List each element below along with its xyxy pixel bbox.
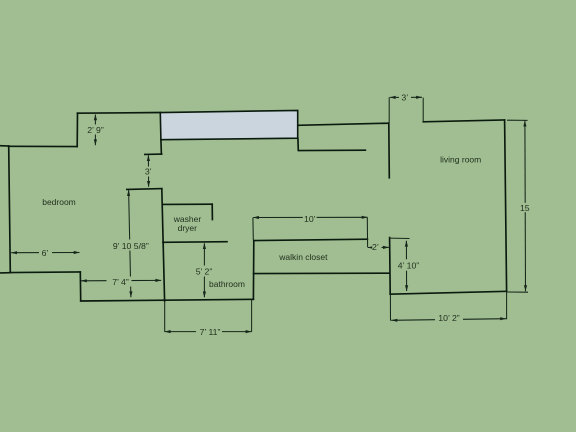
arrows 4'10" — [405, 241, 408, 247]
wall washer south / bath north — [163, 241, 227, 244]
svg-text:6’: 6’ — [42, 248, 49, 258]
dim ext 7'11 left — [164, 301, 166, 332]
arrows 6' — [11, 251, 17, 254]
arrows 15 — [523, 121, 526, 127]
wall walkin south — [254, 272, 390, 274]
wall tick upper (door jamb) — [145, 153, 162, 155]
wall interior x162 (bedroom east / bath west) — [162, 189, 165, 301]
svg-text:9’ 10 5/8”: 9’ 10 5/8” — [113, 241, 149, 251]
dim ext 10' right — [366, 217, 368, 247]
dim line 5'2" — [203, 243, 205, 297]
svg-text:10’: 10’ — [304, 214, 316, 224]
dim ext 15 bottom — [507, 291, 528, 293]
svg-text:bathroom: bathroom — [209, 279, 245, 289]
dim line 2' — [368, 246, 389, 248]
wall living south — [390, 291, 506, 294]
svg-text:4’ 10”: 4’ 10” — [398, 260, 420, 270]
wall stub at left edge (bottom) — [0, 272, 10, 274]
dim ext 10' left — [252, 218, 254, 240]
svg-text:15: 15 — [520, 203, 530, 213]
wall living north — [423, 120, 504, 122]
wall north (bump to blue rect) — [78, 112, 161, 115]
wall bump vertical — [76, 113, 78, 146]
arrows 5'2" — [203, 243, 206, 249]
svg-text:dryer: dryer — [178, 223, 198, 233]
room labels — [42, 154, 481, 289]
wall hall north (y124) — [298, 123, 389, 125]
dim line 6' — [11, 252, 79, 254]
arrows 3' top — [390, 96, 396, 99]
wall walkin west — [252, 241, 254, 300]
svg-text:3’: 3’ — [401, 93, 408, 103]
dim line 4'10" — [405, 241, 407, 291]
dim ext 10'2 left — [389, 295, 391, 321]
svg-text:5’ 2”: 5’ 2” — [196, 266, 213, 276]
svg-text:10’ 2”: 10’ 2” — [438, 313, 460, 323]
arrows 9'10 5/8" — [127, 190, 130, 196]
svg-text:bedroom: bedroom — [42, 197, 76, 207]
wall below blue rect (left) — [160, 140, 163, 155]
dim line 3' left — [147, 155, 149, 187]
wall east lower (x389) — [389, 238, 392, 295]
wall east upper (x389) — [388, 123, 391, 178]
arrows 2' — [368, 246, 374, 249]
dim line 10'2" — [391, 319, 506, 321]
wall bath south — [81, 299, 254, 301]
dim ext 15 top — [507, 119, 528, 121]
arrows 7'4" — [81, 279, 87, 282]
label backgrounds — [39, 93, 531, 337]
wall step vertical — [79, 272, 81, 301]
svg-text:walkin closet: walkin closet — [278, 252, 328, 262]
arrows 3' left — [147, 155, 150, 161]
wall bedroom south — [10, 271, 80, 274]
wall bedroom west — [9, 146, 11, 272]
wall washer north — [163, 203, 213, 205]
dim ext 3'top left — [388, 97, 390, 122]
dim line 7'11" — [165, 331, 252, 333]
svg-text:living room: living room — [440, 154, 481, 164]
wall washer east — [211, 204, 213, 219]
svg-text:3’: 3’ — [145, 167, 152, 177]
arrows 7'11" — [165, 330, 171, 333]
wall stub at left edge (top) — [0, 145, 9, 147]
svg-text:2’: 2’ — [372, 242, 379, 252]
dim ext 3'top right — [422, 98, 424, 122]
wall tick lower (door jamb) — [127, 188, 162, 191]
arrows 10'2" — [391, 319, 397, 322]
arrows 10' — [253, 216, 259, 219]
dim line 9'10 5/8" — [129, 190, 131, 297]
dim line 7'4" — [81, 279, 161, 281]
window / blue rectangle — [160, 110, 297, 139]
dim line 2'9" — [94, 115, 96, 146]
dimension labels — [42, 93, 530, 337]
wall hall south (y150) — [299, 149, 365, 151]
wall walkin north — [254, 239, 368, 240]
dim tick 4'10" top — [390, 237, 410, 239]
wall bedroom north (west part) — [9, 145, 78, 147]
svg-text:2’ 9”: 2’ 9” — [87, 125, 104, 135]
dim ext 10'2 right — [506, 292, 508, 320]
dim line 15 — [524, 121, 527, 292]
dim line 3' top — [390, 96, 422, 98]
arrows 2'9" — [94, 114, 97, 120]
svg-text:7’ 11”: 7’ 11” — [200, 327, 221, 337]
dim line 10' — [253, 216, 367, 218]
dim ext 7'11 right — [251, 300, 253, 332]
wall living east — [505, 120, 507, 291]
svg-text:7’ 4”: 7’ 4” — [112, 277, 129, 287]
wall rect right extension down — [297, 138, 299, 150]
